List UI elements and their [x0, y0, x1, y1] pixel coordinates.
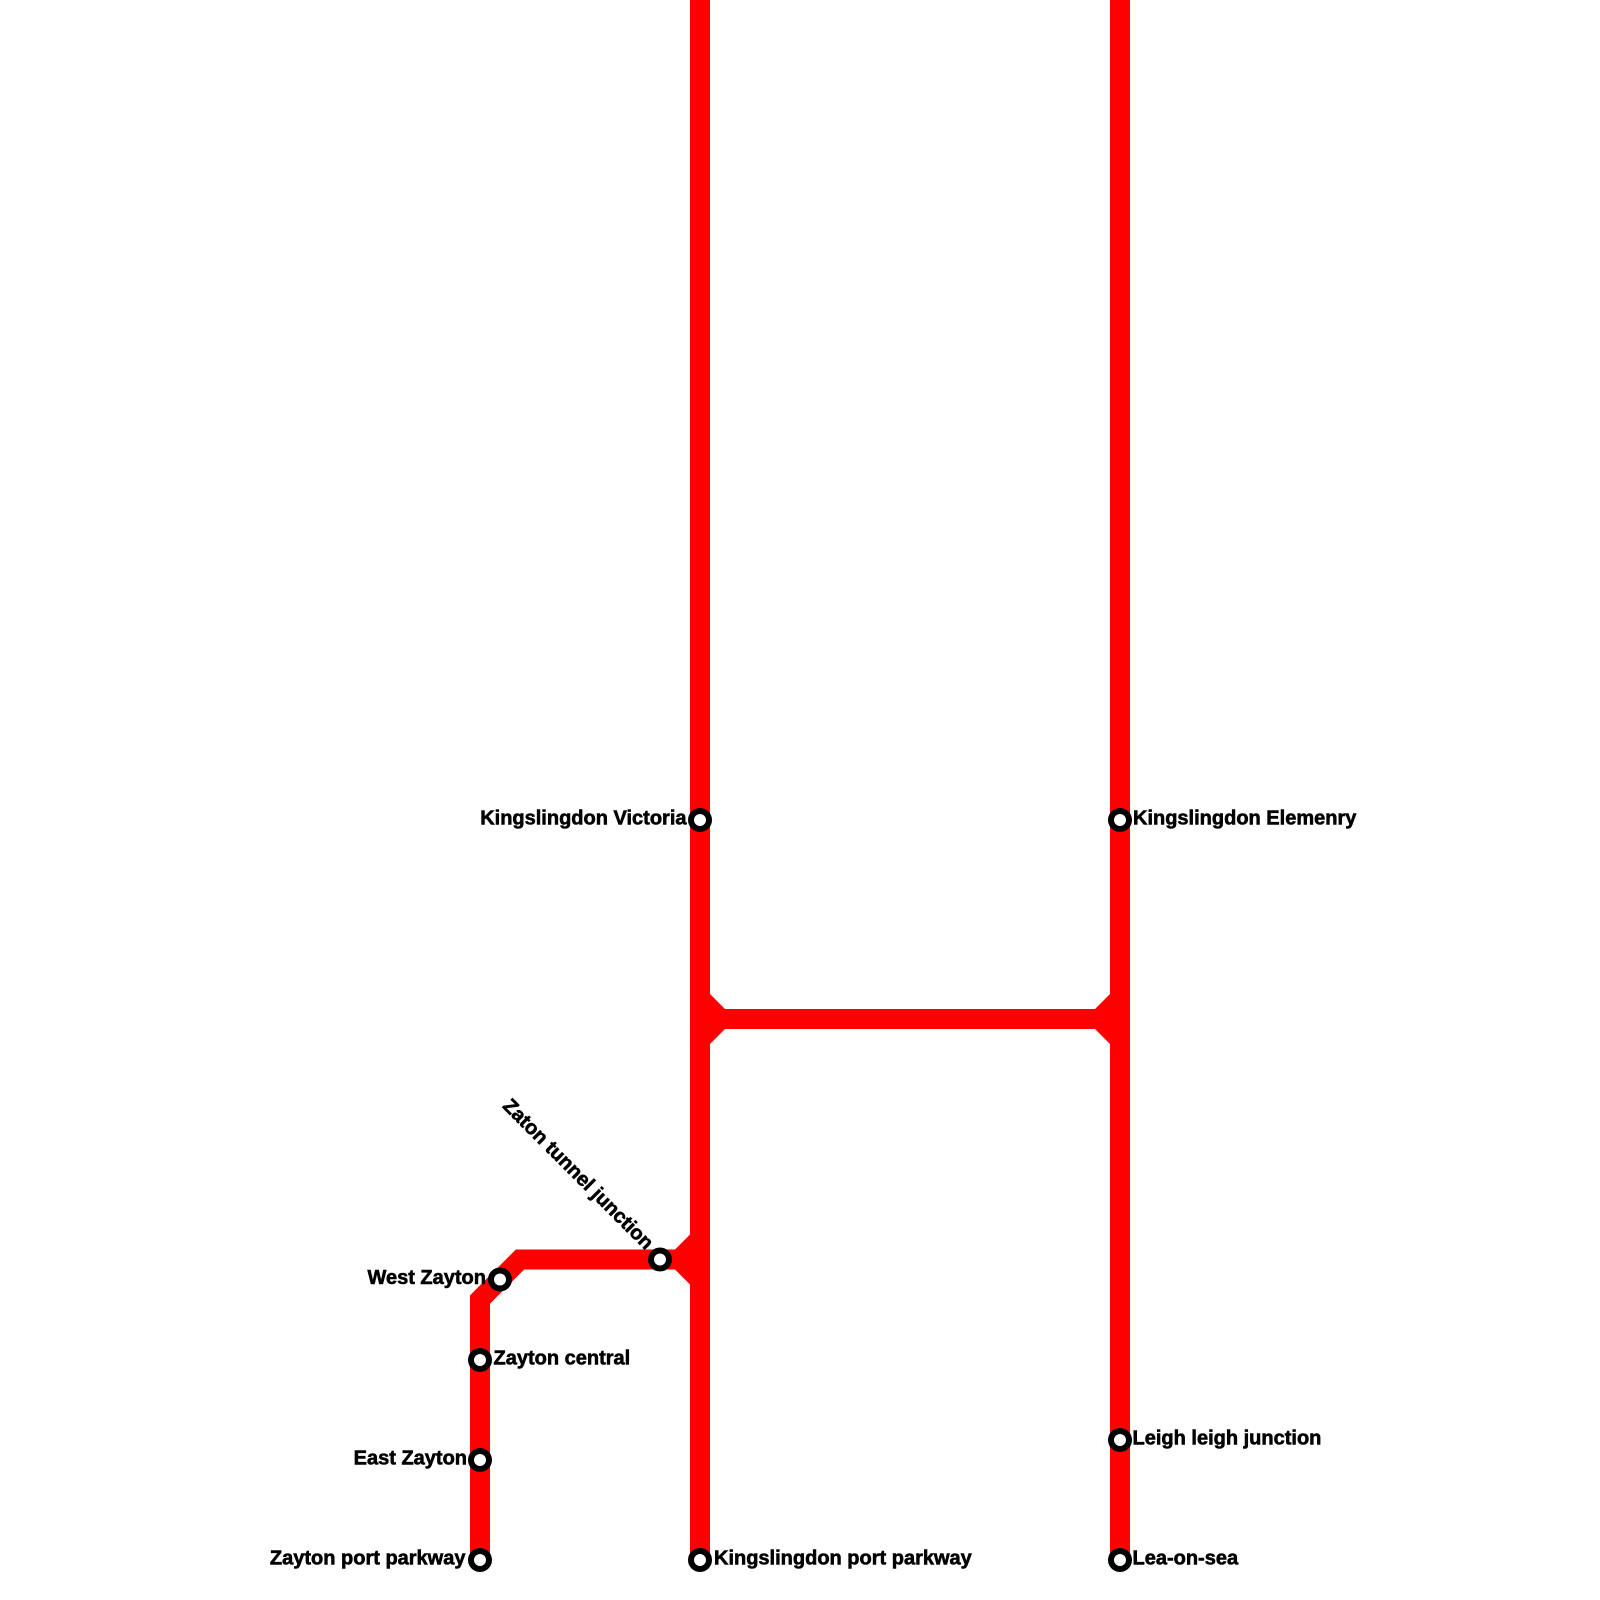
- station West Zayton: [491, 1271, 509, 1289]
- svg-text:Kingslingdon Victoria: Kingslingdon Victoria: [480, 808, 687, 830]
- station Kingslingdon Victoria: [691, 811, 709, 829]
- station Zayton central: [471, 1351, 489, 1369]
- wire: Zayton branch (horizontal, diagonal, vertical): [480, 1260, 700, 1561]
- station Leigh leigh junction: [1111, 1431, 1129, 1449]
- station Kingslingdon port parkway: [691, 1551, 709, 1569]
- wire: left main line (Kingslingdon Victoria line): [690, 0, 710, 1560]
- station East Zayton: [471, 1451, 489, 1469]
- svg-text:West Zayton: West Zayton: [367, 1267, 486, 1289]
- wire: right main line (Kingslingdon Elemenry line): [1110, 0, 1130, 1560]
- station Kingslingdon Elemenry: [1111, 811, 1129, 829]
- station Lea-on-sea: [1111, 1551, 1129, 1569]
- node: connector flare at right main line: [1095, 994, 1115, 1044]
- node: branch flare at left main line: [675, 1235, 695, 1285]
- svg-text:Zayton port parkway: Zayton port parkway: [270, 1548, 466, 1570]
- svg-text:Zayton central: Zayton central: [494, 1348, 631, 1370]
- station Zayton port parkway: [471, 1551, 489, 1569]
- svg-text:Lea-on-sea: Lea-on-sea: [1133, 1548, 1239, 1570]
- svg-text:East Zayton: East Zayton: [354, 1448, 467, 1470]
- svg-text:Kingslingdon port parkway: Kingslingdon port parkway: [714, 1548, 973, 1570]
- wire: horizontal connector between main lines: [700, 1009, 1120, 1029]
- svg-text:Leigh leigh junction: Leigh leigh junction: [1133, 1428, 1322, 1450]
- station Zaton tunnel junction: [651, 1251, 669, 1269]
- svg-text:Kingslingdon Elemenry: Kingslingdon Elemenry: [1133, 808, 1357, 830]
- node: connector flare at left main line: [705, 994, 725, 1044]
